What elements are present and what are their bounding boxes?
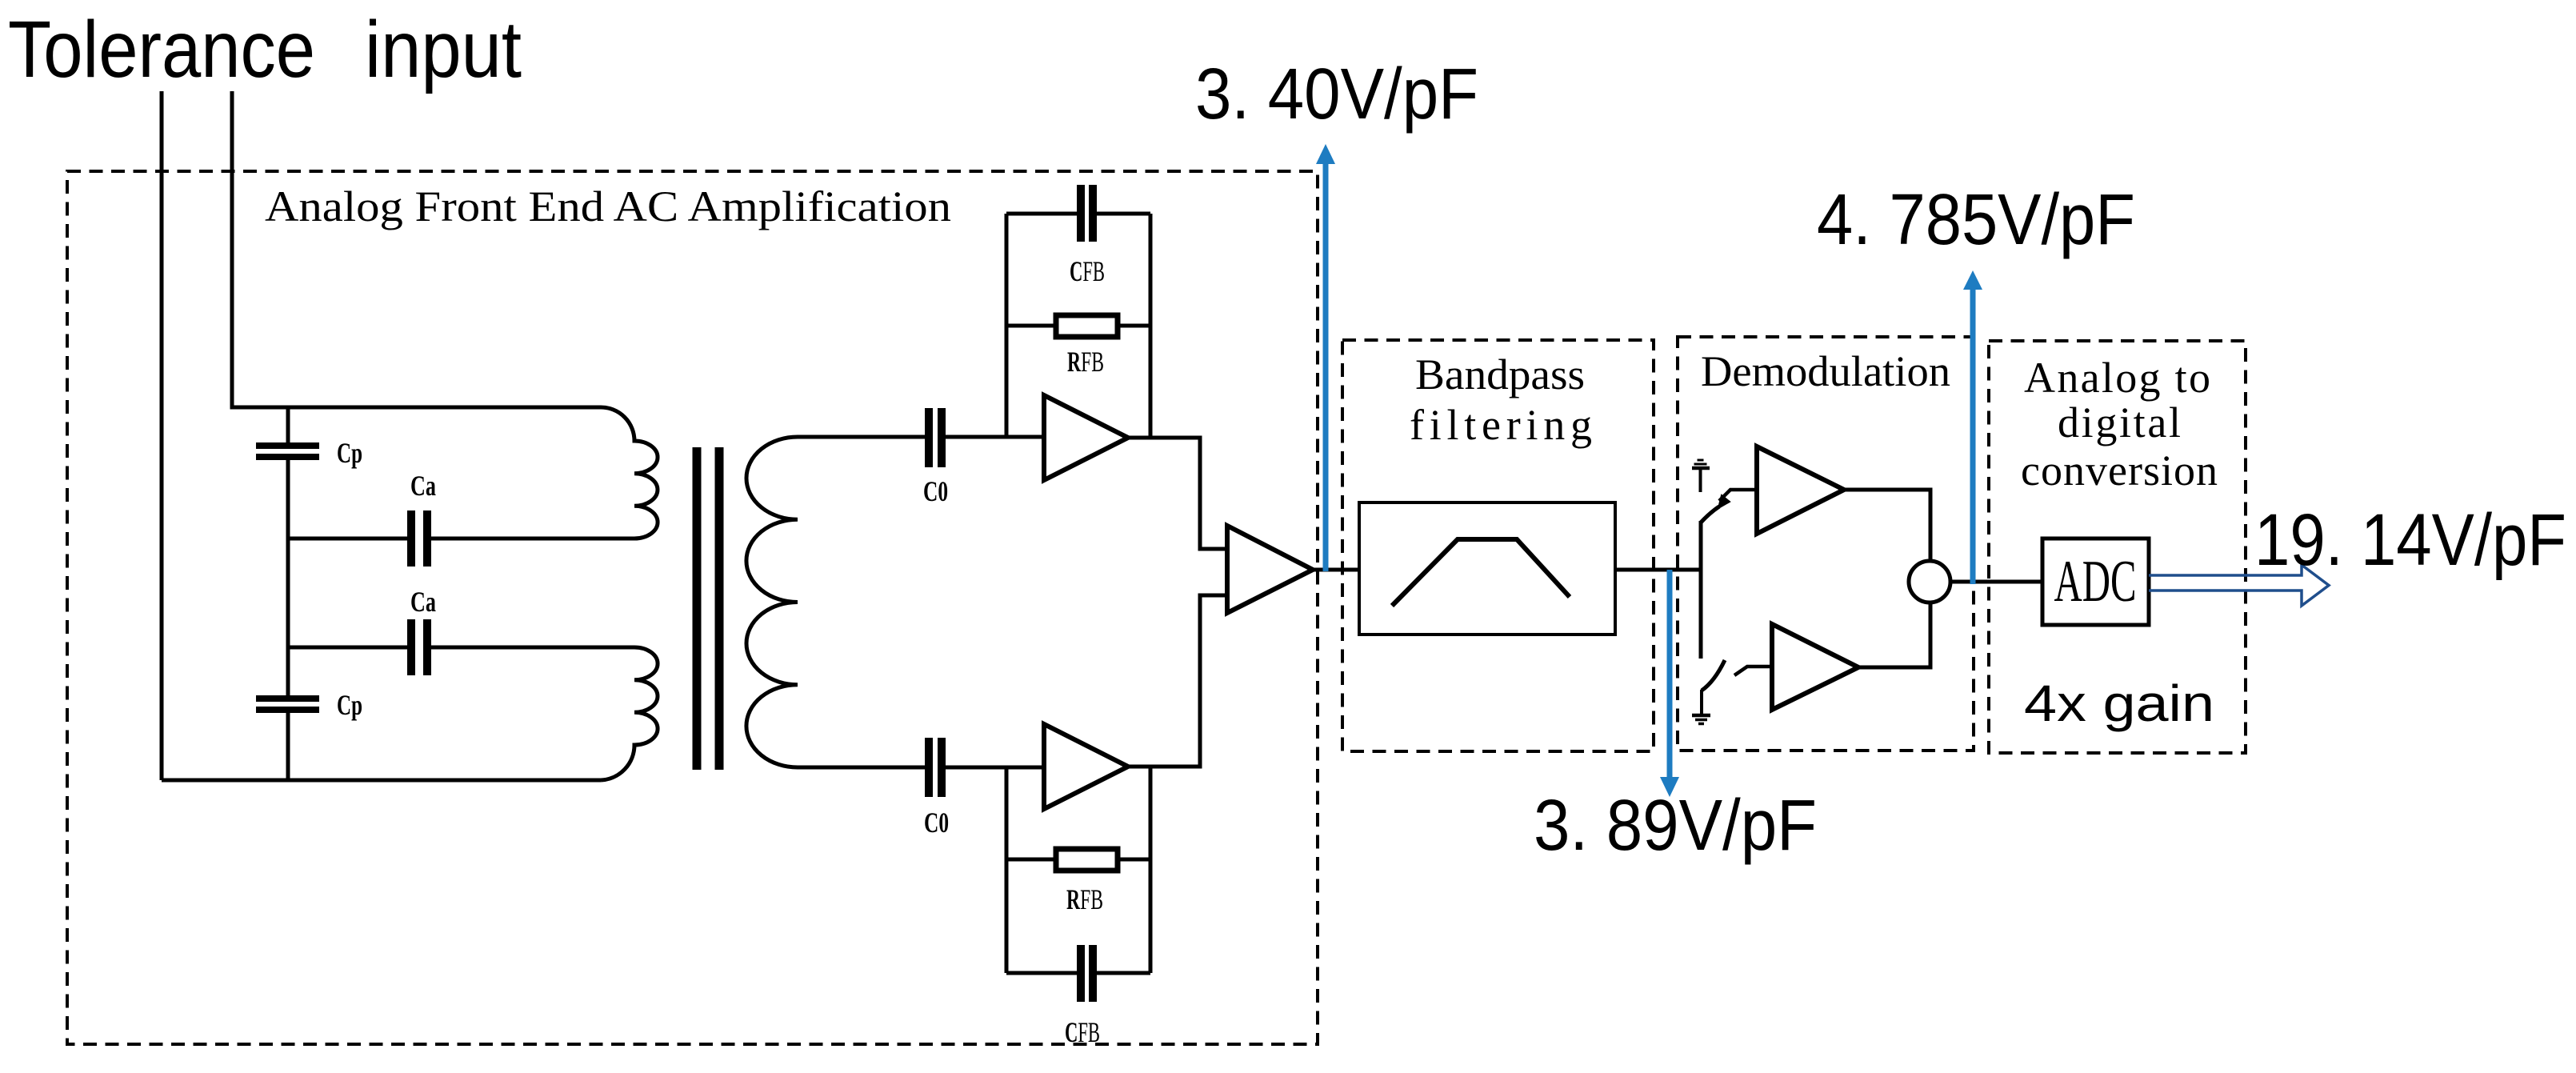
wire: S2 fixed contact to amp: [1734, 667, 1772, 675]
capacitor Ca (lower): [411, 619, 427, 675]
op-amp U3 summing amplifier: [1227, 526, 1313, 613]
svg-text:Toleranceinput: Toleranceinput: [8, 5, 522, 94]
svg-text:4. 785V/pF: 4. 785V/pF: [1817, 180, 2135, 260]
svg-text:RFB: RFB: [1066, 883, 1103, 915]
wire: bottom return line: [162, 779, 601, 783]
dashed box: Demodulation: [1678, 337, 1974, 751]
svg-text:3. 40V/pF: 3. 40V/pF: [1195, 54, 1478, 134]
dashed box: Bandpass filtering: [1342, 340, 1654, 751]
wire: input line 1 (left): [160, 91, 164, 780]
wire: U4 output to multiplier: [1844, 490, 1930, 561]
inductor: primary coil top: [601, 407, 658, 539]
svg-text:ADC: ADC: [2054, 549, 2137, 615]
svg-text:Ca: Ca: [410, 586, 436, 618]
op-amp A2 (bottom): [1044, 724, 1128, 809]
svg-text:Analog to: Analog to: [2024, 354, 2210, 402]
multiplier circle: [1909, 561, 1950, 603]
capacitor Ca (upper): [411, 510, 427, 567]
resistor RFB (bottom): [1056, 849, 1118, 871]
dashed box: Analog to digital conversion: [1989, 341, 2246, 753]
capacitor Cp (bottom): [256, 699, 319, 710]
svg-text:Bandpass: Bandpass: [1415, 350, 1585, 398]
svg-text:C0: C0: [923, 475, 948, 507]
svg-text:Ca: Ca: [410, 470, 436, 502]
wire: secondary top line: [798, 435, 1044, 439]
block: ADC box: [2042, 539, 2149, 625]
wire: top feedback left rail: [1005, 214, 1009, 437]
switch S2 (bottom) arm: [1702, 660, 1725, 691]
inductor: primary coil bottom: [601, 647, 658, 780]
capacitor C0 (top): [929, 408, 942, 467]
wire: bandpass to demodulation: [1615, 568, 1701, 572]
svg-text:CFB: CFB: [1065, 1016, 1100, 1048]
svg-text:RFB: RFB: [1067, 346, 1104, 378]
capacitor CFB (bottom): [1081, 945, 1093, 1002]
svg-text:Demodulation: Demodulation: [1701, 347, 1950, 395]
wire: summing amp output to bandpass: [1313, 568, 1359, 572]
wire: U5 output to multiplier: [1858, 603, 1930, 667]
wire: input line 2 (right): [232, 91, 601, 407]
wire: secondary bottom line: [798, 766, 1044, 770]
switch S1 contact barb: [1718, 495, 1730, 508]
wire: Ca1 branch: [288, 537, 634, 541]
hollow blue output arrow: [2149, 565, 2329, 606]
op-amp U5 (demod bottom): [1772, 624, 1858, 710]
wire: Ca2 branch: [288, 646, 634, 650]
svg-text:4x gain: 4x gain: [2024, 675, 2214, 732]
op-amp U4 (demod top): [1757, 446, 1844, 534]
svg-text:conversion: conversion: [2021, 446, 2218, 494]
blue arrow up: 4.785V/pF tap: [1963, 270, 1982, 584]
svg-text:Analog Front End AC Amplificat: Analog Front End AC Amplification: [265, 182, 951, 230]
block: bandpass filter box: [1359, 502, 1615, 635]
blue arrow down: 3.89V/pF tap: [1660, 570, 1679, 797]
wire: Cp rail vertical segments: [286, 407, 290, 780]
capacitor CFB (top): [1081, 185, 1093, 242]
wire: bottom feedback bottom branch: [1006, 971, 1150, 975]
dashed box: Analog Front End AC Amplification: [67, 171, 1318, 1044]
capacitor Cp (top): [256, 446, 319, 457]
power symbol (top contact): [1699, 470, 1702, 492]
op-amp A1 (top): [1044, 395, 1128, 480]
svg-text:Cp: Cp: [337, 437, 362, 469]
wire: A2 output to summing amp: [1128, 595, 1227, 767]
wire: top feedback middle branch: [1006, 324, 1150, 328]
capacitor C0 (bottom): [929, 738, 942, 797]
svg-text:digital: digital: [2058, 398, 2181, 446]
svg-text:C0: C0: [924, 807, 949, 839]
wire: S1 fixed contact to amp: [1719, 490, 1757, 501]
transformer core bars: [697, 447, 719, 770]
wire: top feedback right rail: [1149, 214, 1153, 438]
wire: bottom feedback middle branch: [1006, 858, 1150, 862]
wire: bottom feedback left rail: [1005, 767, 1009, 973]
svg-text:19. 14V/pF: 19. 14V/pF: [2254, 499, 2566, 581]
wire: top feedback top branch: [1006, 212, 1150, 216]
svg-text:Cp: Cp: [337, 689, 362, 721]
switch S1 (top) arm: [1701, 506, 1719, 522]
svg-text:filtering: filtering: [1410, 401, 1592, 449]
svg-text:CFB: CFB: [1070, 255, 1105, 287]
bandpass response curve: [1392, 539, 1570, 606]
svg-text:3. 89V/pF: 3. 89V/pF: [1534, 786, 1817, 866]
resistor RFB (top): [1056, 315, 1118, 337]
wire: demod input rail: [1699, 521, 1703, 659]
wire: bottom feedback right rail: [1149, 767, 1153, 973]
inductor: secondary coil: [746, 437, 798, 767]
wire: A1 output to summing amp: [1128, 438, 1227, 549]
wire: S2 to ground: [1700, 690, 1703, 715]
ground symbol: [1692, 714, 1710, 718]
wire: multiplier to ADC: [1950, 580, 2042, 584]
blue arrow up: 3.40V/pF tap: [1316, 144, 1335, 571]
